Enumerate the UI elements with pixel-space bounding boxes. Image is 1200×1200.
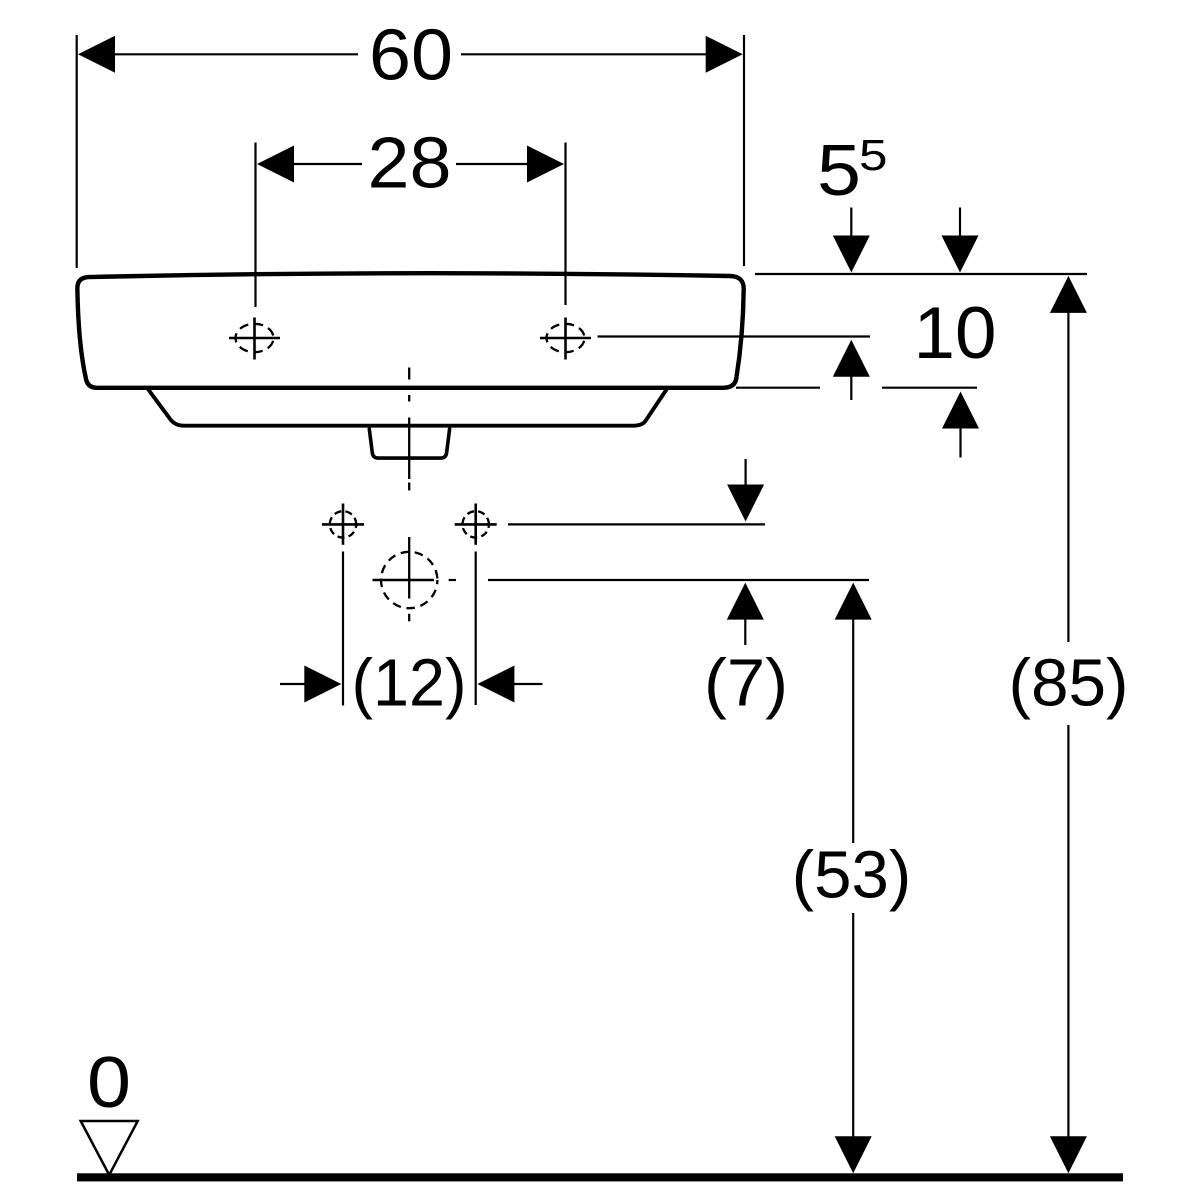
svg-text:0: 0: [87, 1043, 131, 1123]
svg-text:5: 5: [817, 131, 861, 211]
svg-text:28: 28: [368, 124, 452, 204]
svg-text:(12): (12): [352, 646, 467, 721]
svg-text:(53): (53): [792, 838, 912, 913]
svg-text:10: 10: [914, 293, 997, 374]
svg-text:(7): (7): [704, 646, 788, 721]
svg-text:5: 5: [859, 131, 888, 180]
svg-text:60: 60: [369, 15, 453, 95]
svg-text:(85): (85): [1009, 646, 1129, 721]
